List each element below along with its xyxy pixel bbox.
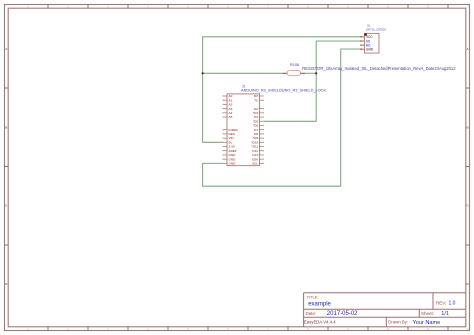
svg-text:*D11: *D11 xyxy=(251,145,258,149)
svg-text:A5: A5 xyxy=(229,115,233,119)
svg-text:IOREF: IOREF xyxy=(229,128,239,132)
svg-text:REV:: REV: xyxy=(436,300,446,305)
svg-text:D13: D13 xyxy=(252,153,258,157)
svg-text:A3: A3 xyxy=(229,107,233,111)
svg-text:example: example xyxy=(308,302,331,308)
svg-text:GND: GND xyxy=(366,48,374,52)
svg-text:EasyEDA V4.4.4: EasyEDA V4.4.4 xyxy=(304,319,336,324)
svg-text:RESISTOR_10xArray_Isolated_SIL: RESISTOR_10xArray_Isolated_SIL_DetachedP… xyxy=(302,66,456,71)
svg-text:Date:: Date: xyxy=(306,311,317,316)
svg-text:RX: RX xyxy=(254,94,258,98)
svg-text:I/O: I/O xyxy=(366,39,371,43)
svg-text:RES: RES xyxy=(229,132,235,136)
svg-text:2017-05-02: 2017-05-02 xyxy=(327,311,358,317)
svg-text:*D6: *D6 xyxy=(253,124,258,128)
svg-text:SDA: SDA xyxy=(252,157,259,161)
svg-text:NC: NC xyxy=(366,43,371,47)
svg-text:ARDUINO_R3_SHIELDUNO_R3_SHIELD: ARDUINO_R3_SHIELDUNO_R3_SHIELD_LOCK xyxy=(241,88,326,92)
svg-text:D12: D12 xyxy=(252,149,258,153)
svg-text:DHT11_C87020: DHT11_C87020 xyxy=(366,27,386,31)
svg-text:TX: TX xyxy=(254,98,258,102)
svg-text:TITLE:: TITLE: xyxy=(307,294,319,299)
svg-text:GND: GND xyxy=(229,153,237,157)
svg-text:VCC: VCC xyxy=(366,35,373,39)
svg-text:R106: R106 xyxy=(290,62,299,67)
svg-text:A2: A2 xyxy=(229,103,233,107)
svg-text:AREF: AREF xyxy=(229,149,237,153)
svg-text:VIN: VIN xyxy=(229,136,234,140)
svg-text:*D10: *D10 xyxy=(251,140,258,144)
svg-text:1/1: 1/1 xyxy=(441,311,449,317)
svg-text:GND: GND xyxy=(229,157,237,161)
svg-text:*D3: *D3 xyxy=(253,111,258,115)
svg-text:1.0: 1.0 xyxy=(449,301,456,307)
svg-text:SCL: SCL xyxy=(252,161,258,165)
svg-text:GND: GND xyxy=(229,161,237,165)
svg-text:Your Name: Your Name xyxy=(413,320,441,326)
svg-text:Sheet:: Sheet: xyxy=(421,311,434,316)
svg-text:U1: U1 xyxy=(367,24,371,28)
svg-text:*D9: *D9 xyxy=(253,136,258,140)
svg-text:D4: D4 xyxy=(254,115,258,119)
svg-text:D8: D8 xyxy=(254,132,258,136)
svg-text:3.3V: 3.3V xyxy=(229,145,236,149)
svg-text:D2: D2 xyxy=(254,107,258,111)
svg-text:*D5: *D5 xyxy=(253,119,258,123)
svg-text:A4: A4 xyxy=(229,111,233,115)
svg-text:Drawn By:: Drawn By: xyxy=(388,319,408,324)
svg-text:A0: A0 xyxy=(229,94,233,98)
svg-text:A1: A1 xyxy=(229,98,233,102)
svg-text:D7: D7 xyxy=(254,128,258,132)
